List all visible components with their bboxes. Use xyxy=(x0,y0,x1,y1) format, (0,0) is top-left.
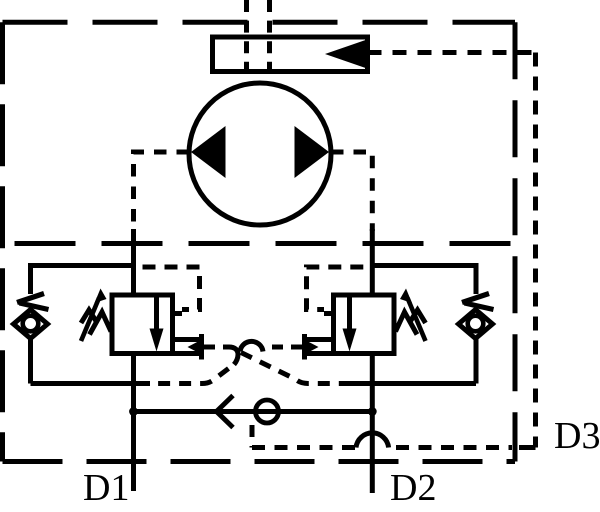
makeup check seat xyxy=(217,396,234,428)
work line B upper xyxy=(370,229,375,295)
crossover line from RV1 outlet xyxy=(204,345,229,350)
work line A upper xyxy=(131,229,136,295)
crossover line from RV2 outlet xyxy=(266,345,302,350)
drain tap below check xyxy=(250,425,255,448)
relief valve RV2 body xyxy=(334,295,395,354)
motor arrow left xyxy=(191,126,226,178)
relief valve RV1 outlet port xyxy=(173,337,200,342)
motor port line A xyxy=(134,152,190,231)
svg-text:D1: D1 xyxy=(83,467,129,507)
relief valve RV1 adjust arrow xyxy=(81,298,99,341)
relief valve RV1 spring xyxy=(81,310,111,335)
check valve CV1 branch bottom xyxy=(31,381,151,386)
check valve CV2 branch bottom xyxy=(350,381,476,386)
check valve CV1 spring xyxy=(17,294,49,310)
check valve CV2 branch top xyxy=(372,263,476,268)
relief valve RV2 adjust arrow xyxy=(408,298,426,341)
case drain line left through flushing valve xyxy=(244,0,249,83)
motor arrow right xyxy=(295,126,330,178)
relief valve RV2 pilot stub xyxy=(324,311,334,316)
crossover diagonal to line A xyxy=(148,369,229,384)
drain hop over line B xyxy=(356,433,389,448)
check valve CV1 branch left lower xyxy=(28,337,33,384)
flushing valve arrow xyxy=(325,40,367,69)
makeup check line xyxy=(134,409,373,414)
check valve CV1 branch left upper xyxy=(28,263,33,294)
crossover hook xyxy=(229,347,238,365)
makeup check ball xyxy=(256,400,279,423)
flushing valve body xyxy=(213,37,368,72)
drain line to D3 right part xyxy=(396,445,512,450)
check valve CV2 spring xyxy=(462,294,494,310)
drain line to D3 xyxy=(252,445,356,450)
crossover hop arc xyxy=(240,341,263,351)
junction node B xyxy=(368,407,377,416)
junction node A xyxy=(129,407,138,416)
relief valve RV2 spring xyxy=(396,310,426,335)
manifold frame top edge xyxy=(3,20,516,25)
check valve CV2 branch right upper xyxy=(474,263,479,294)
pilot line flushing valve to D3 xyxy=(368,50,536,55)
relief valve RV1 pilot line xyxy=(134,267,200,310)
manifold frame left edge xyxy=(0,22,5,461)
drain line D3 vertical xyxy=(533,53,538,448)
relief valve RV2 pilot line xyxy=(307,267,373,310)
check valve CV2 branch right lower xyxy=(474,337,479,384)
relief valve RV1 pilot stub xyxy=(173,311,183,316)
manifold frame right edge xyxy=(513,22,518,461)
relief valve RV2 arrow xyxy=(347,297,352,330)
check valve CV2 poppet xyxy=(459,310,493,339)
internal passage line xyxy=(3,241,516,246)
relief valve RV2 outlet port xyxy=(307,337,334,342)
drain line D3 stub xyxy=(519,445,536,450)
relief valve RV1 arrow xyxy=(154,297,159,330)
check valve CV1 branch top xyxy=(31,263,134,268)
work line A lower xyxy=(131,354,136,492)
manifold frame bottom edge xyxy=(3,459,516,464)
work line B lower xyxy=(370,354,375,494)
svg-text:D3: D3 xyxy=(554,415,600,457)
relief valve RV1 body xyxy=(112,295,173,354)
motor M1 xyxy=(189,83,331,225)
check valve CV1 poppet xyxy=(14,310,48,339)
svg-text:D2: D2 xyxy=(390,467,436,507)
motor port line B xyxy=(331,152,372,231)
case drain line right through flushing valve xyxy=(267,0,272,83)
crossover diagonal to line B xyxy=(241,353,352,384)
